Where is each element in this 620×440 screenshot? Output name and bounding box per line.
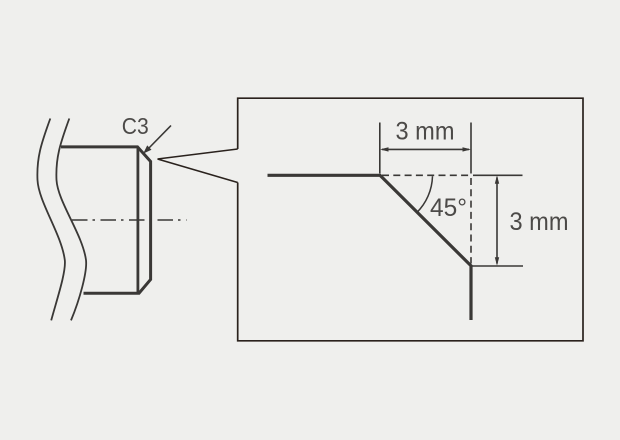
svg-text:3 mm: 3 mm: [510, 208, 569, 236]
svg-text:3 mm: 3 mm: [396, 118, 455, 146]
svg-text:45°: 45°: [430, 194, 467, 222]
svg-text:C3: C3: [122, 113, 149, 139]
